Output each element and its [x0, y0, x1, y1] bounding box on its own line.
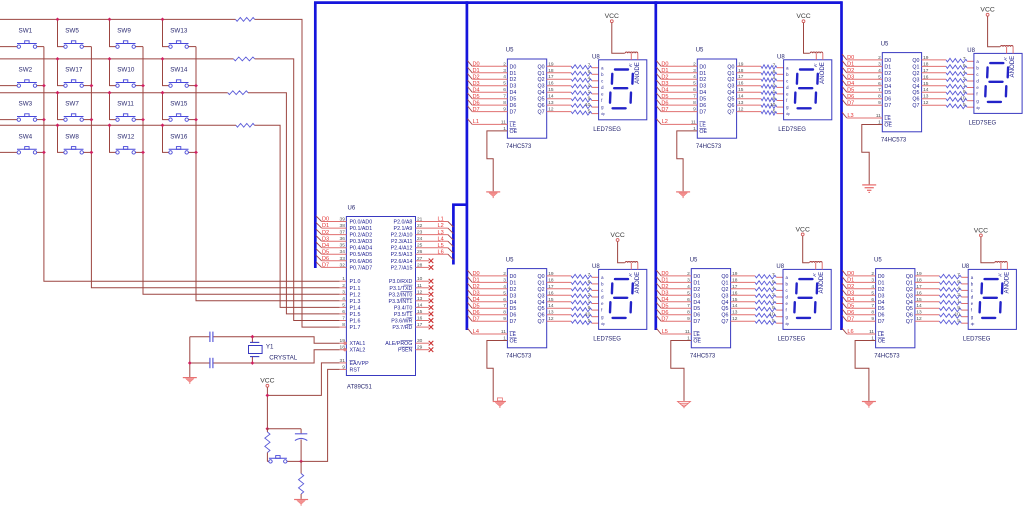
- pin P1.1 number 2: [342, 283, 360, 292]
- display U5 bot-1 anode labels: [628, 272, 641, 294]
- resistor row 4: [236, 123, 255, 127]
- resistor U5 top-1 Q2: [538, 74, 599, 83]
- switch SW12: [110, 125, 144, 154]
- svg-text:2: 2: [588, 82, 591, 88]
- junction crystal top: [251, 335, 255, 339]
- display U5 top-1 pin e (1): [588, 89, 604, 97]
- node D4 to latch U5 top-2 pin 6: [656, 87, 706, 97]
- ground xtal: [183, 378, 197, 384]
- svg-text:12: 12: [417, 289, 423, 295]
- svg-text:14: 14: [417, 302, 423, 308]
- svg-text:SW3: SW3: [19, 101, 33, 108]
- svg-text:U8: U8: [962, 264, 970, 270]
- svg-text:SW16: SW16: [170, 133, 188, 140]
- svg-text:2: 2: [871, 271, 874, 277]
- svg-text:6: 6: [957, 279, 960, 285]
- svg-text:Q2: Q2: [727, 77, 734, 83]
- wire VCC to EA and RC: [266, 387, 268, 429]
- display U5 bot-3 pin dp (5): [957, 318, 974, 326]
- display U5 bot-2 pin f (9): [772, 305, 787, 313]
- pin P3.3/INT1 13 no-connect: [389, 296, 434, 305]
- resistor row 1: [236, 18, 255, 22]
- resistor U5 top-3 Q5: [912, 87, 973, 96]
- latch U5 top-2 74HC573 box: [696, 48, 737, 150]
- svg-text:1: 1: [588, 89, 591, 95]
- svg-text:D1: D1: [884, 64, 891, 70]
- display U5 bot-3 pin g (10): [955, 312, 974, 320]
- svg-text:P0.0/AD0: P0.0/AD0: [350, 220, 373, 226]
- svg-text:P0.7/AD7: P0.7/AD7: [350, 265, 373, 271]
- svg-text:SW12: SW12: [117, 133, 135, 140]
- svg-text:9: 9: [687, 316, 690, 322]
- node D2 to latch U5 top-3 pin 4: [842, 67, 891, 77]
- svg-text:OE: OE: [699, 129, 707, 135]
- svg-text:5: 5: [588, 109, 591, 115]
- display U5 top-3 pin a (7): [963, 56, 979, 64]
- svg-text:5: 5: [503, 81, 506, 87]
- bus main vertical at U6: [314, 3, 317, 268]
- junction row 4 col 2: [56, 123, 60, 127]
- resistor U5 top-1 Q3: [538, 81, 599, 90]
- svg-text:2: 2: [503, 271, 506, 277]
- svg-text:dp: dp: [601, 322, 605, 326]
- svg-text:D1: D1: [510, 280, 517, 286]
- svg-text:Q5: Q5: [906, 306, 913, 312]
- resistor U5 top-1 Q4: [538, 87, 599, 96]
- resistor U5 top-3 Q7: [912, 100, 973, 109]
- svg-text:36: 36: [340, 236, 346, 242]
- resistor U5 bot-3 Q7: [906, 316, 968, 325]
- svg-text:Q0: Q0: [912, 58, 919, 64]
- svg-text:Q0: Q0: [721, 274, 728, 280]
- svg-text:P1.7: P1.7: [350, 325, 361, 331]
- display U5 top-1 pin c (4): [588, 76, 604, 84]
- display U5 bot-1 segments: [610, 279, 633, 318]
- wire XTAL2 net: [190, 350, 347, 363]
- svg-text:D2: D2: [693, 287, 700, 293]
- svg-text:4: 4: [878, 68, 881, 74]
- display U5 bot-1 pin dp (5): [588, 318, 605, 326]
- node D1 at U6 P0.1, pin 38: [316, 222, 372, 232]
- display U5 top-1 pin d (2): [588, 82, 604, 90]
- svg-text:LE: LE: [693, 332, 700, 338]
- svg-text:OE: OE: [878, 339, 886, 345]
- display U5 top-3 LED7SEG box: [967, 48, 1022, 127]
- svg-text:VCC: VCC: [980, 7, 994, 14]
- svg-text:U8: U8: [776, 264, 784, 270]
- display U5 top-1 pin g (10): [585, 102, 604, 110]
- svg-text:SW15: SW15: [170, 101, 188, 108]
- svg-text:D4: D4: [693, 300, 700, 306]
- latch U5 bot-1 74HC573 box: [506, 257, 547, 359]
- svg-text:11: 11: [876, 113, 881, 119]
- svg-text:L3: L3: [438, 230, 444, 236]
- ground latch U5 top-1: [486, 192, 500, 198]
- display U5 top-3 pin c (4): [963, 69, 979, 77]
- resistor U5 bot-1 Q6: [538, 310, 599, 319]
- svg-text:7: 7: [957, 272, 960, 278]
- svg-text:38: 38: [340, 223, 346, 229]
- svg-text:6: 6: [693, 87, 696, 93]
- svg-text:P1.5: P1.5: [350, 312, 361, 318]
- display U5 bot-3 pin c (4): [957, 285, 973, 293]
- svg-text:7: 7: [342, 316, 345, 322]
- display U5 bot-3 pin b (6): [957, 279, 973, 287]
- display U5 top-1 segments: [610, 70, 633, 109]
- svg-text:dp: dp: [786, 322, 790, 326]
- svg-text:AT89C51: AT89C51: [347, 385, 373, 391]
- svg-text:7: 7: [503, 94, 506, 100]
- node D6 to latch U5 top-1 pin 8: [468, 99, 517, 109]
- node D7 at U6 P0.7, pin 32: [316, 262, 372, 272]
- svg-text:Q6: Q6: [912, 97, 919, 103]
- node D7 to latch U5 bot-3 pin 9: [842, 316, 884, 326]
- junction crystal bottom: [251, 361, 255, 365]
- display U5 bot-3 anode labels: [997, 272, 1010, 294]
- svg-text:8: 8: [693, 100, 696, 106]
- svg-text:Q7: Q7: [721, 319, 728, 325]
- svg-text:A’: A’: [628, 273, 633, 277]
- svg-text:A’: A’: [812, 273, 817, 277]
- display U5 top-2 anode labels: [813, 62, 826, 84]
- junction VCC/EA: [266, 394, 270, 398]
- svg-text:Q7: Q7: [538, 319, 545, 325]
- node L6 latch U5 bot-3 LE pin 11: [842, 328, 885, 338]
- svg-text:L4: L4: [438, 236, 444, 242]
- svg-text:Q2: Q2: [538, 77, 545, 83]
- display U5 bot-3 LED7SEG box: [962, 264, 1017, 343]
- resistor row 3: [228, 91, 248, 95]
- node D3 to latch U5 bot-2 pin 5: [656, 290, 700, 300]
- capacitor C1: [210, 332, 213, 342]
- svg-text:6: 6: [963, 63, 966, 69]
- display U5 bot-2 segments: [794, 279, 817, 318]
- svg-text:8: 8: [503, 310, 506, 316]
- svg-text:30: 30: [417, 338, 423, 344]
- resistor U5 bot-2 Q2: [721, 284, 783, 293]
- junction column 4 row 2: [194, 84, 198, 88]
- resistor U5 top-2 Q5: [727, 94, 783, 103]
- svg-text:9: 9: [878, 100, 881, 106]
- svg-text:Q1: Q1: [538, 71, 545, 77]
- power VCC reset: [260, 378, 274, 387]
- svg-text:SW5: SW5: [65, 28, 79, 35]
- display U5 top-2 segments: [795, 70, 818, 109]
- svg-text:ANODE: ANODE: [634, 272, 641, 294]
- wire column 2 vertical: [91, 47, 346, 288]
- svg-text:Q3: Q3: [538, 84, 545, 90]
- svg-text:2: 2: [687, 271, 690, 277]
- display U5 top-1 pin f (9): [588, 95, 603, 103]
- svg-text:2: 2: [957, 292, 960, 298]
- svg-text:2: 2: [503, 61, 506, 67]
- display U5 top-2 pin b (6): [773, 69, 789, 77]
- svg-text:74HC573: 74HC573: [690, 353, 716, 359]
- svg-text:P3.5/T1: P3.5/T1: [394, 312, 413, 318]
- svg-text:U5: U5: [881, 41, 889, 47]
- svg-text:9: 9: [588, 95, 591, 101]
- node D7 to latch U5 top-1 pin 9: [468, 106, 517, 116]
- svg-text:6: 6: [503, 297, 506, 303]
- pin P2.6 27 no-connect: [391, 256, 434, 265]
- svg-text:34: 34: [340, 249, 346, 255]
- svg-text:SW2: SW2: [19, 67, 33, 74]
- svg-text:5: 5: [957, 318, 960, 324]
- pin P3.5/T1 15 no-connect: [394, 309, 433, 318]
- switch SW10: [110, 59, 144, 87]
- svg-text:Q4: Q4: [906, 300, 913, 306]
- junction column 1 row 3: [42, 118, 46, 122]
- wire latch U5 bot-2 OE pin 1 to ground: [671, 336, 702, 401]
- svg-text:Q5: Q5: [721, 306, 728, 312]
- svg-text:27: 27: [417, 256, 423, 262]
- svg-text:RST: RST: [350, 367, 361, 373]
- svg-text:D6: D6: [510, 313, 517, 319]
- wire row 1 to P1.7: [255, 19, 347, 327]
- svg-text:3: 3: [503, 68, 506, 74]
- svg-text:2: 2: [773, 82, 776, 88]
- switch SW11: [110, 93, 144, 122]
- switch SW1: [0, 28, 44, 49]
- svg-text:28: 28: [417, 262, 423, 268]
- svg-text:D3: D3: [699, 84, 706, 90]
- wire latch U5 bot-1 OE pin 1 to ground: [487, 336, 518, 401]
- power VCC U5 top-2: [796, 13, 810, 22]
- display U5 bot-1 pin f (9): [588, 305, 603, 313]
- svg-text:9: 9: [773, 95, 776, 101]
- svg-text:D2: D2: [510, 287, 517, 293]
- junction RC top: [266, 427, 270, 431]
- svg-text:P3.7/RD: P3.7/RD: [392, 325, 412, 331]
- svg-text:P2.1/A9: P2.1/A9: [394, 226, 413, 232]
- junction row 2 col 2: [56, 57, 60, 61]
- svg-text:LE: LE: [884, 116, 891, 122]
- resistor U5 bot-2 Q0: [721, 271, 783, 280]
- node L4 at U6 P2.3, pin 24: [391, 236, 453, 247]
- svg-text:D5: D5: [878, 306, 885, 312]
- display U5 bot-1 LED7SEG box: [592, 264, 647, 343]
- svg-text:Q0: Q0: [727, 64, 734, 70]
- node D2 to latch U5 top-1 pin 4: [468, 74, 517, 84]
- svg-text:LE: LE: [699, 122, 706, 128]
- display U5 top-3 segments: [985, 63, 1008, 102]
- resistor reset pull: [265, 429, 270, 462]
- node D4 to latch U5 bot-1 pin 6: [468, 296, 517, 306]
- svg-text:11: 11: [685, 329, 690, 335]
- switch SW15: [163, 93, 197, 122]
- bus top horizontal: [314, 1, 842, 4]
- node D6 to latch U5 top-3 pin 8: [842, 93, 891, 103]
- display U5 bot-2 pin d (2): [772, 292, 788, 300]
- svg-text:P1.6: P1.6: [350, 319, 361, 325]
- resistor U5 top-3 Q2: [912, 68, 973, 77]
- svg-text:A’: A’: [997, 273, 1002, 277]
- svg-text:6: 6: [342, 309, 345, 315]
- svg-text:SW17: SW17: [65, 67, 83, 74]
- svg-text:Q7: Q7: [912, 103, 919, 109]
- resistor U5 bot-2 Q5: [721, 303, 783, 312]
- svg-text:P1.2: P1.2: [350, 292, 361, 298]
- junction xtal gnd row: [188, 361, 192, 365]
- svg-text:D6: D6: [699, 103, 706, 109]
- svg-text:9: 9: [693, 107, 696, 113]
- svg-text:6: 6: [588, 279, 591, 285]
- node D2 at U6 P0.2, pin 37: [316, 229, 372, 239]
- svg-text:Q7: Q7: [906, 319, 913, 325]
- svg-text:D1: D1: [510, 71, 517, 77]
- wire row 4 to P1.4: [255, 125, 347, 307]
- svg-text:Q0: Q0: [538, 274, 545, 280]
- wire VCC U5 top-3 to anode: [988, 16, 1014, 53]
- svg-text:Q7: Q7: [727, 110, 734, 116]
- pin P3.2/INT0 12 no-connect: [389, 289, 434, 298]
- svg-text:9: 9: [503, 107, 506, 113]
- node L3 latch U5 top-3 LE pin 11: [842, 112, 891, 122]
- node D6 to latch U5 top-2 pin 8: [656, 99, 706, 109]
- display U5 bot-3 pin e (1): [957, 298, 973, 306]
- node D3 to latch U5 top-1 pin 5: [468, 80, 517, 90]
- svg-text:VCC: VCC: [974, 227, 988, 234]
- node D5 to latch U5 top-2 pin 7: [656, 93, 706, 103]
- svg-text:5: 5: [963, 102, 966, 108]
- svg-text:D2: D2: [884, 71, 891, 77]
- svg-text:11: 11: [691, 119, 696, 125]
- svg-text:D1: D1: [699, 71, 706, 77]
- pin PSEN 29 no-connect: [398, 345, 433, 354]
- display U5 bot-2 pin a (7): [772, 272, 788, 280]
- svg-text:6: 6: [773, 69, 776, 75]
- node L2 latch U5 top-2 LE pin 11: [656, 119, 706, 129]
- resistor U5 top-3 Q4: [912, 81, 973, 90]
- svg-text:SW13: SW13: [170, 28, 188, 35]
- pin P1.5 number 6: [342, 309, 360, 318]
- node D3 to latch U5 bot-3 pin 5: [842, 290, 884, 300]
- display U5 bot-1 pin g (10): [585, 312, 604, 320]
- node D5 to latch U5 bot-1 pin 7: [468, 303, 517, 313]
- svg-text:74HC573: 74HC573: [506, 353, 532, 359]
- display U5 top-3 pin e (1): [963, 82, 979, 90]
- node D6 at U6 P0.6, pin 33: [316, 255, 372, 265]
- node D6 to latch U5 bot-1 pin 8: [468, 309, 517, 319]
- resistor U5 bot-3 Q5: [906, 303, 968, 312]
- svg-text:Q5: Q5: [727, 97, 734, 103]
- svg-text:LE: LE: [510, 122, 517, 128]
- svg-text:5: 5: [772, 318, 775, 324]
- svg-text:D3: D3: [878, 293, 885, 299]
- svg-text:7: 7: [687, 303, 690, 309]
- node D7 to latch U5 bot-1 pin 9: [468, 316, 517, 326]
- svg-text:Q6: Q6: [906, 313, 913, 319]
- svg-text:8: 8: [687, 310, 690, 316]
- svg-text:10: 10: [585, 312, 591, 318]
- svg-text:4: 4: [503, 74, 506, 80]
- display U5 bot-2 pin dp (5): [772, 318, 789, 326]
- svg-text:P0.5/AD5: P0.5/AD5: [350, 252, 373, 258]
- svg-text:Q0: Q0: [538, 64, 545, 70]
- display U5 bot-3 pin d (2): [957, 292, 973, 300]
- svg-text:P2.2/A10: P2.2/A10: [391, 233, 413, 239]
- capacitor C2: [210, 358, 213, 368]
- svg-text:7: 7: [773, 63, 776, 69]
- svg-text:PSEN: PSEN: [398, 348, 413, 354]
- svg-text:7: 7: [503, 303, 506, 309]
- svg-text:LED7SEG: LED7SEG: [593, 337, 621, 343]
- svg-text:XTAL1: XTAL1: [350, 341, 366, 347]
- node D3 to latch U5 bot-1 pin 5: [468, 290, 517, 300]
- svg-text:Q3: Q3: [727, 84, 734, 90]
- junction column 3 row 2: [141, 84, 145, 88]
- svg-text:P3.2/INT0: P3.2/INT0: [389, 292, 413, 298]
- svg-text:11: 11: [417, 283, 422, 289]
- node D0 to latch U5 bot-3 pin 2: [842, 270, 884, 280]
- display U5 top-2 LED7SEG box: [777, 54, 832, 133]
- node D0 to latch U5 bot-1 pin 2: [468, 270, 517, 280]
- resistor U5 top-1 Q0: [538, 61, 599, 70]
- node D7 to latch U5 top-2 pin 9: [656, 106, 706, 116]
- svg-text:5: 5: [878, 74, 881, 80]
- svg-text:ANODE: ANODE: [818, 272, 825, 294]
- pin P2.7 28 no-connect: [391, 262, 434, 271]
- node D5 to latch U5 bot-3 pin 7: [842, 303, 884, 313]
- svg-text:Q5: Q5: [538, 97, 545, 103]
- svg-text:9: 9: [963, 89, 966, 95]
- junction row 2 col 4: [161, 57, 165, 61]
- svg-text:74HC573: 74HC573: [874, 353, 900, 359]
- switch SW3: [0, 101, 44, 122]
- svg-text:10: 10: [769, 312, 775, 318]
- junction RC bottom: [299, 460, 303, 464]
- svg-text:P2.4/A12: P2.4/A12: [391, 246, 413, 252]
- svg-text:8: 8: [342, 322, 345, 328]
- svg-text:D3: D3: [884, 77, 891, 83]
- svg-text:D3: D3: [693, 293, 700, 299]
- svg-text:LED7SEG: LED7SEG: [593, 127, 621, 133]
- svg-text:4: 4: [871, 284, 874, 290]
- svg-text:3: 3: [342, 289, 345, 295]
- svg-text:P0.2/AD2: P0.2/AD2: [350, 233, 373, 239]
- svg-text:1: 1: [773, 89, 776, 95]
- resistor U5 top-2 Q6: [727, 100, 783, 109]
- display U5 top-2 pin a (7): [773, 63, 789, 71]
- display U5 top-2 pin d (2): [773, 82, 789, 90]
- svg-text:D0: D0: [884, 58, 891, 64]
- junction column 2 row 2: [90, 84, 94, 88]
- wire latch U5 top-2 OE pin 1 to ground: [677, 126, 708, 191]
- svg-text:P1.1: P1.1: [350, 286, 361, 292]
- svg-text:9: 9: [772, 305, 775, 311]
- svg-text:Q1: Q1: [538, 280, 545, 286]
- svg-text:P2.6/A14: P2.6/A14: [391, 259, 413, 265]
- svg-text:P3.0/RXD: P3.0/RXD: [389, 279, 413, 285]
- svg-text:Y1: Y1: [266, 344, 274, 351]
- switch SW9: [110, 19, 144, 48]
- svg-text:15: 15: [417, 309, 423, 315]
- display U5 top-3 pin dp (5): [963, 102, 980, 110]
- svg-text:9: 9: [957, 305, 960, 311]
- node L1 at U6 P2.0, pin 21: [394, 217, 454, 228]
- node D4 to latch U5 bot-2 pin 6: [656, 296, 700, 306]
- ground latch U5 top-2: [676, 192, 690, 198]
- svg-text:D4: D4: [699, 90, 706, 96]
- svg-text:4: 4: [773, 76, 776, 82]
- svg-text:24: 24: [417, 236, 423, 242]
- svg-text:2: 2: [772, 292, 775, 298]
- svg-text:Q5: Q5: [912, 90, 919, 96]
- svg-text:Q4: Q4: [538, 90, 545, 96]
- display U5 bot-3 pin a (7): [957, 272, 973, 280]
- svg-text:33: 33: [340, 256, 346, 262]
- svg-text:U5: U5: [506, 257, 514, 263]
